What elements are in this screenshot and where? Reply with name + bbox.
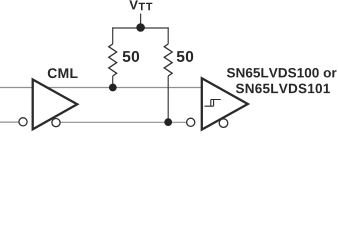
wire resistor R1 bottom leg [112, 76, 114, 88]
label SN65LVDS101 [236, 84, 330, 94]
terminal circle driver output [52, 119, 60, 127]
receiver U1 triangle [202, 78, 248, 129]
resistor R2 zigzag [164, 44, 172, 76]
wire bottom differential line middle segment [57, 121, 189, 123]
label SN65LVDS100 or [227, 68, 337, 78]
wire bottom differential line left segment [0, 121, 21, 123]
hysteresis symbol inside U1 [204, 100, 220, 107]
wire VTT stub [140, 14, 142, 28]
wire top differential line [0, 87, 202, 89]
junction R1 to top line [109, 84, 117, 92]
label R2 value 50 [177, 51, 193, 62]
junction VTT node [136, 23, 145, 32]
driver D1 CML triangle [33, 80, 77, 130]
label R1 value 50 [123, 51, 139, 62]
wire resistor R1 top leg [112, 27, 114, 44]
wire resistor top connector [112, 27, 169, 29]
terminal circle receiver under [219, 119, 228, 128]
label VTT [129, 0, 138, 9]
wire resistor R2 top leg [167, 27, 169, 44]
terminal circle driver input [19, 118, 27, 126]
junction R2 to bottom line [164, 118, 172, 126]
wire resistor R2 bottom leg [167, 76, 169, 122]
terminal circle receiver input [187, 118, 195, 126]
resistor R1 zigzag [109, 44, 117, 76]
label CML [48, 68, 78, 78]
